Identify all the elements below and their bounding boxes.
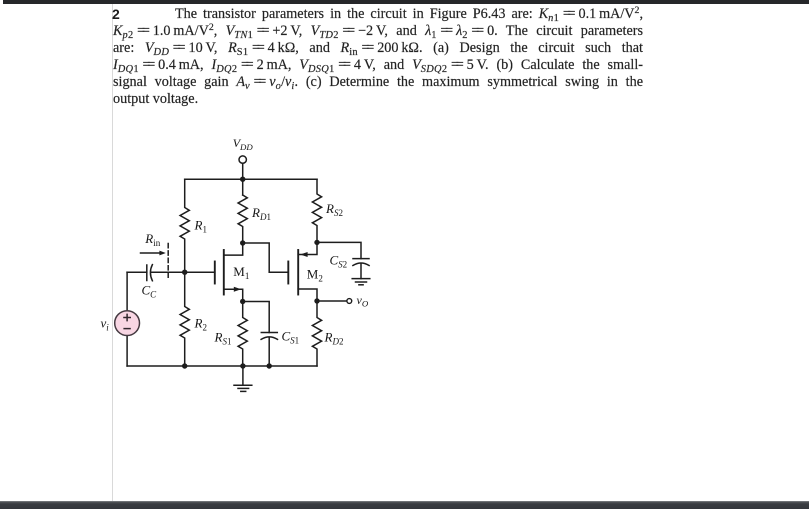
VDD terminal	[239, 156, 246, 163]
transistor M1 channel	[223, 250, 225, 295]
node gate M1	[182, 270, 187, 275]
label Rin	[144, 231, 160, 248]
resistor RS1	[238, 302, 247, 367]
node top rail junction	[240, 177, 245, 182]
node R2 bottom	[182, 363, 187, 368]
wire VDD drop	[242, 164, 244, 180]
wire M1 drain to M2 gate	[243, 243, 289, 272]
label VDD	[233, 136, 254, 152]
transistor M1 gate lead	[185, 271, 215, 273]
wire CS2 bottom	[360, 264, 362, 279]
label RS2	[325, 201, 343, 218]
label RS1	[214, 330, 232, 347]
label M2	[307, 267, 323, 284]
svg-text:vi: vi	[101, 316, 110, 333]
node CS1 bottom	[267, 363, 272, 368]
wire vi bottom	[126, 336, 128, 366]
svg-text:R1: R1	[194, 217, 207, 234]
node source M2	[314, 240, 319, 245]
transistor M1 drain lead	[224, 243, 243, 255]
node drain M2	[314, 298, 319, 303]
svg-text:CC: CC	[142, 283, 158, 300]
svg-text:Rin: Rin	[144, 231, 160, 248]
svg-text:VDD: VDD	[233, 136, 254, 152]
transistor M2 gate bar	[287, 262, 289, 284]
wire M2 source node to CS2	[317, 242, 361, 258]
output terminal vO	[347, 299, 352, 304]
transistor M1 source lead	[224, 289, 243, 301]
label RD2	[324, 330, 344, 347]
svg-text:RD1: RD1	[251, 205, 271, 222]
resistor R1	[180, 179, 189, 272]
resistor R2	[180, 272, 189, 366]
node RS1 bottom	[240, 363, 245, 368]
ground main	[234, 384, 252, 386]
source vi	[115, 311, 140, 336]
label R2	[194, 316, 207, 333]
page edge line	[112, 4, 113, 501]
svg-text:R2: R2	[194, 316, 207, 333]
transistor M2 source lead	[298, 242, 317, 254]
Rin dashed line	[167, 244, 169, 280]
svg-text:RD2: RD2	[324, 330, 344, 347]
capacitor CC	[146, 265, 148, 281]
label R1	[194, 217, 207, 234]
svg-text:RS2: RS2	[325, 201, 343, 218]
resistor RD2	[312, 301, 321, 366]
Rin arrow	[141, 252, 161, 254]
bottom bar	[0, 501, 809, 509]
transistor M1 gate bar	[214, 262, 216, 284]
wire CC to gate node	[152, 271, 185, 273]
svg-text:M2: M2	[307, 267, 323, 284]
label vi	[101, 316, 110, 333]
ground CS2	[352, 278, 370, 280]
problem number	[112, 6, 120, 22]
Rin arrowhead	[159, 251, 165, 256]
resistor RS2	[312, 179, 321, 242]
svg-text:CS2: CS2	[330, 253, 348, 270]
wire CS1 bottom	[268, 338, 270, 366]
wire output	[317, 300, 346, 302]
node drain M1	[240, 240, 245, 245]
wire vi top	[126, 272, 128, 311]
label CS2	[330, 253, 348, 270]
wire top rail	[185, 178, 317, 180]
wire VDD column to RD1	[242, 179, 244, 195]
svg-text:RS1: RS1	[214, 330, 232, 347]
transistor M2 source arrowhead	[300, 252, 307, 257]
capacitor CS1	[261, 332, 277, 334]
problem text	[113, 6, 643, 108]
transistor M2 channel	[297, 250, 299, 295]
resistor RD1	[238, 195, 247, 243]
label CS1	[282, 329, 300, 346]
label RD1	[251, 205, 271, 222]
label M1	[233, 264, 249, 281]
transistor M2 drain lead	[298, 289, 317, 301]
wire bottom rail	[127, 365, 317, 367]
capacitor CS2	[353, 258, 369, 260]
transistor M1 source arrowhead	[234, 287, 241, 292]
svg-text:vO: vO	[357, 293, 369, 309]
top bar	[3, 0, 809, 4]
label vO	[357, 293, 369, 309]
svg-text:M1: M1	[233, 264, 249, 281]
label CC	[142, 283, 158, 300]
node source M1	[240, 299, 245, 304]
wire M1 source to CS1	[243, 302, 270, 333]
ground main stub	[242, 366, 244, 385]
wire input left	[127, 271, 147, 273]
svg-text:CS1: CS1	[282, 329, 300, 346]
